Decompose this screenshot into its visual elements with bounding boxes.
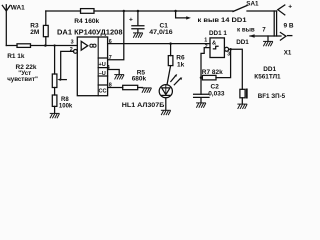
wire SA1 to X1	[247, 10, 277, 12]
svg-text:X1: X1	[284, 50, 292, 57]
connector X1 plus contact	[278, 5, 285, 15]
svg-text:47,0/16: 47,0/16	[149, 29, 173, 36]
svg-text:9 В: 9 В	[284, 23, 294, 30]
svg-text:4: 4	[107, 65, 110, 71]
svg-text:DA1 КР140УД1208: DA1 КР140УД1208	[57, 29, 123, 36]
resistor R7	[202, 75, 216, 80]
wire DA1 pin4 to ground	[108, 70, 120, 75]
infinity symbol op-amp	[90, 44, 96, 47]
LED HL1	[159, 85, 172, 98]
svg-text:3: 3	[227, 52, 230, 58]
svg-text:HL1 АЛ307Б: HL1 АЛ307Б	[122, 102, 165, 109]
wire R1 to DA1 pin3 node	[31, 45, 78, 47]
svg-text:R1 1k: R1 1k	[7, 53, 25, 60]
svg-text:R4 160k: R4 160k	[74, 18, 99, 25]
wire antenna to R1	[6, 45, 17, 47]
svg-text:DD1 1: DD1 1	[209, 30, 227, 37]
connector X1 minus contact	[280, 33, 286, 41]
svg-text:8: 8	[109, 82, 112, 88]
svg-text:к выв 14 DD1: к выв 14 DD1	[198, 17, 248, 24]
svg-text:0,033: 0,033	[208, 90, 225, 97]
gate output inversion circle	[225, 47, 229, 51]
minus sign	[288, 35, 292, 37]
resistor R5	[108, 87, 123, 89]
pin2 stub wire	[201, 48, 210, 95]
wire rail top left	[46, 10, 81, 12]
svg-text:100k: 100k	[59, 103, 73, 109]
svg-text:2M: 2M	[30, 29, 39, 36]
ground X1	[267, 36, 269, 41]
wire R2 to R8	[54, 88, 56, 96]
resistor R1	[17, 44, 31, 48]
wire DA1 pin6 output	[108, 43, 210, 45]
svg-text:К561ТЛ1: К561ТЛ1	[254, 74, 281, 81]
junction pin14 feed	[174, 10, 177, 13]
logic gate DD1.1	[210, 38, 224, 58]
svg-text:SA1: SA1	[246, 0, 259, 7]
svg-text:1: 1	[204, 38, 207, 44]
svg-text:R8: R8	[61, 97, 69, 103]
capacitor C1	[132, 11, 144, 33]
svg-text:&: &	[212, 40, 216, 46]
svg-text:680k: 680k	[132, 75, 147, 82]
svg-text:7: 7	[262, 26, 266, 33]
node A junction R1/R3	[44, 44, 47, 47]
buzzer BF1	[240, 89, 245, 98]
switch SA1	[233, 6, 247, 12]
svg-text:DD1: DD1	[263, 66, 276, 73]
svg-text:WA1: WA1	[11, 4, 25, 11]
wire gate output to BF1	[229, 49, 243, 89]
antenna WA1	[2, 5, 10, 46]
wire DA1 pin7 to rail	[108, 11, 124, 60]
svg-text:+U: +U	[99, 62, 106, 68]
svg-text:+: +	[129, 17, 133, 24]
wire X1 plus pair verticals	[274, 11, 276, 36]
svg-text:CC: CC	[99, 88, 107, 94]
svg-text:7: 7	[109, 55, 112, 61]
junction R6	[169, 42, 172, 45]
wire pin2 to R2 wiper	[61, 51, 74, 79]
svg-text:R7 82k: R7 82k	[202, 69, 223, 76]
svg-text:+: +	[288, 4, 292, 11]
junction R7/C2	[200, 76, 203, 79]
resistor R6	[170, 44, 172, 56]
svg-text:1k: 1k	[177, 62, 185, 69]
pin 2 inversion circle	[74, 50, 78, 54]
resistor R8	[52, 95, 57, 106]
svg-text:3: 3	[71, 40, 74, 46]
op-amp DA1 box	[77, 37, 107, 96]
variable resistor R2	[54, 44, 56, 46]
junction C1 rail	[137, 10, 140, 13]
wire to pin 14 DD1 with arrow	[176, 11, 187, 18]
svg-text:к выв: к выв	[237, 26, 255, 33]
resistor R3	[45, 11, 47, 25]
svg-text:BF1 ЗП-5: BF1 ЗП-5	[258, 93, 286, 100]
svg-text:чувствит": чувствит"	[7, 76, 38, 83]
hysteresis symbol	[213, 46, 218, 49]
op-amp triangle	[81, 41, 88, 50]
capacitor C2	[194, 94, 209, 102]
svg-text:2: 2	[70, 47, 73, 53]
arrow to pin7 DD1	[249, 34, 254, 38]
LED arrows	[171, 76, 176, 82]
wire minus line	[250, 35, 281, 37]
resistor R4	[81, 9, 95, 14]
svg-text:–U: –U	[99, 71, 106, 77]
svg-text:2: 2	[205, 44, 208, 50]
svg-text:DD1: DD1	[236, 39, 249, 46]
wire rail R4 to SA1	[94, 10, 233, 12]
svg-text:6: 6	[109, 39, 112, 45]
